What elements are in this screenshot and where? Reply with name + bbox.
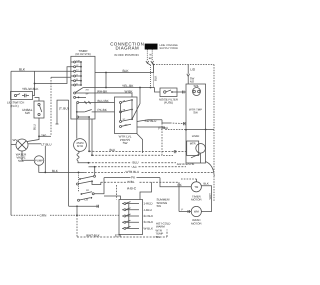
svg-text:BLK: BLK	[110, 148, 117, 152]
right pin chevron connector	[151, 61, 154, 63]
svg-text:SOL: SOL	[18, 159, 24, 163]
svg-text:ETB: ETB	[115, 233, 121, 237]
svg-text:SW: SW	[156, 235, 161, 239]
svg-text:HI: HI	[86, 189, 89, 192]
timer internal vertical	[76, 103, 78, 120]
door switch contact 2	[22, 95, 25, 97]
svg-text:MOTOR: MOTOR	[191, 221, 201, 225]
temp sw pin 4	[122, 221, 139, 223]
svg-text:W-BK: W-BK	[125, 89, 134, 93]
wire N junction dotted down	[153, 65, 155, 88]
svg-text:BLU-BK: BLU-BK	[98, 99, 110, 103]
svg-text:PK-BK: PK-BK	[98, 108, 108, 112]
timer pin row 6	[71, 84, 81, 86]
timer pin row 1	[71, 61, 81, 63]
wire curve panel to border	[206, 162, 215, 177]
svg-text:BLK: BLK	[154, 76, 158, 81]
wire into water valve	[27, 136, 39, 141]
wire PK to timer motor	[160, 178, 191, 187]
svg-text:MTR: MTR	[190, 143, 196, 146]
door switch box	[11, 92, 33, 100]
harness row BLU	[89, 162, 132, 164]
wash motor	[191, 206, 201, 216]
motor start box	[187, 141, 199, 156]
timer pin row 3	[71, 70, 81, 72]
bottom WHT-BLK wire	[77, 236, 167, 238]
contact elbow wires	[94, 178, 104, 194]
timer row 10 with contacts	[78, 102, 95, 104]
harness row W-BL	[101, 181, 127, 183]
left pin chevron connector	[146, 61, 149, 63]
timer motor	[191, 182, 201, 192]
svg-text:PK: PK	[131, 175, 136, 179]
timer pin row 4	[71, 75, 81, 77]
svg-text:WH-BK: WH-BK	[97, 89, 108, 93]
node on N-timer wire	[105, 72, 107, 74]
timer box	[71, 56, 95, 119]
svg-text:3x BLK: 3x BLK	[144, 220, 154, 224]
svg-text:(T, BU): (T, BU)	[59, 106, 69, 110]
motor junction wires	[88, 117, 90, 151]
wire wash motor left	[179, 211, 191, 213]
connector ticks on motor row	[173, 150, 175, 153]
label BLK on pump wire	[52, 169, 59, 173]
svg-text:1-RED: 1-RED	[144, 202, 154, 206]
unbalance switch box	[34, 101, 44, 118]
supply cord label	[160, 44, 179, 50]
wire door-sw tee to timer row2	[35, 67, 71, 84]
timer pin labels	[76, 59, 80, 85]
svg-text:(FUSE): (FUSE)	[164, 101, 173, 105]
bottom border dashed wire	[11, 214, 39, 216]
dashed wire row2	[92, 154, 162, 156]
svg-text:SW: SW	[123, 141, 128, 145]
long wire down left of motor	[68, 100, 70, 206]
svg-text:GRN: GRN	[40, 213, 47, 217]
drive motor	[74, 139, 87, 152]
svg-text:PUMP: PUMP	[35, 159, 43, 163]
svg-text:BLK: BLK	[123, 69, 130, 73]
supply cord black box	[145, 44, 158, 50]
wire SW BLU to panel	[162, 120, 170, 123]
svg-text:W-BLK: W-BLK	[144, 226, 153, 230]
timer pin row 5	[71, 80, 81, 82]
wire pressure box drop diagonal	[137, 133, 143, 153]
svg-text:BLK: BLK	[19, 68, 26, 72]
wire border to water valve	[11, 144, 16, 146]
wires out right of pressure sw	[137, 120, 162, 122]
wire water valve to pump	[22, 151, 34, 160]
wire inside panel to border	[186, 129, 214, 131]
svg-text:MOTOR: MOTOR	[191, 198, 201, 202]
left border vertical wire	[10, 71, 12, 215]
wire water valve LT BLU	[28, 143, 41, 145]
svg-text:WTB BLU: WTB BLU	[126, 170, 140, 174]
lid switch drop	[187, 65, 189, 74]
right border dashed down	[213, 65, 215, 173]
temp sw labels	[144, 202, 154, 231]
start switch contacts row c	[86, 189, 89, 192]
svg-text:YEL-BK: YEL-BK	[122, 84, 134, 88]
pin labels	[149, 53, 153, 60]
wire motor top	[76, 119, 78, 139]
motor internal switch row a	[79, 178, 81, 180]
pressure sw contact 3	[120, 121, 122, 123]
pump motor	[34, 156, 44, 166]
fuse box	[160, 88, 177, 97]
pressure switch box	[115, 97, 138, 134]
svg-text:(60 HZ STD): (60 HZ STD)	[75, 53, 90, 56]
svg-text:BLK: BLK	[52, 169, 59, 173]
node N junction	[153, 64, 155, 66]
svg-text:SW: SW	[25, 111, 30, 115]
wires into temp box	[104, 196, 120, 200]
wire timer row8 to pressure sw	[95, 93, 132, 97]
wire stub timer row4	[51, 76, 71, 78]
wire unbal down BLU	[38, 118, 40, 136]
wire N to timer BLK	[95, 65, 154, 73]
harness row WTB	[85, 171, 125, 173]
svg-text:A-B-C: A-B-C	[127, 186, 137, 190]
wire vertical x106	[105, 73, 107, 88]
wire rows elbow	[92, 181, 101, 184]
supply left pin wire down (dotted)	[150, 65, 152, 88]
timer internal bus	[80, 62, 82, 85]
svg-text:(N.O.): (N.O.)	[11, 104, 19, 108]
pressure sw contact 1	[120, 102, 122, 104]
left border top wire	[11, 70, 71, 72]
temp sw pin 5	[122, 227, 139, 229]
svg-text:LOAD: LOAD	[192, 134, 200, 138]
svg-text:LO: LO	[85, 198, 88, 201]
wire T BLU to panel	[165, 127, 186, 130]
wire PK-BK	[95, 111, 115, 113]
wire elbow T-BU	[57, 100, 69, 124]
harness row PK	[104, 177, 131, 179]
temp switch box	[119, 200, 143, 235]
door switch contact 1	[14, 94, 16, 96]
right panel box	[186, 84, 206, 163]
svg-text:CM: CM	[76, 59, 80, 62]
dashed row into timer motor top	[181, 178, 197, 180]
svg-text:(T)BLU: (T)BLU	[158, 126, 168, 130]
wire timer to fuse YEL y87.5	[95, 87, 155, 89]
timer switch arm	[75, 88, 84, 93]
svg-text:WV: WV	[13, 138, 18, 142]
svg-text:IN OFF POSITION: IN OFF POSITION	[114, 53, 138, 57]
timer row 11 switch	[77, 111, 85, 113]
wire N bus to right border dashed	[154, 64, 215, 66]
svg-text:WHT: WHT	[208, 193, 212, 200]
timer row 9	[75, 96, 86, 98]
svg-text:J-BLU: J-BLU	[144, 208, 152, 212]
temp sw pin 3	[122, 215, 139, 217]
supply right pin	[151, 50, 153, 62]
wire BLU-BK to pressure sw	[95, 102, 115, 104]
timer row 7 out	[83, 87, 95, 89]
svg-text:WM: WM	[194, 211, 200, 214]
motor internal switch row b	[77, 183, 79, 185]
label A-B-C	[127, 186, 137, 190]
start circle	[196, 144, 206, 154]
dashed boundary right mid	[162, 123, 173, 155]
pressure sw contact 4	[120, 126, 122, 128]
svg-text:LT BLU: LT BLU	[41, 142, 51, 146]
svg-text:AC: AC	[133, 165, 138, 169]
supply left pin	[146, 50, 148, 62]
svg-text:SW BLU: SW BLU	[145, 119, 157, 123]
svg-text:W/BL: W/BL	[127, 180, 135, 184]
wire pump bottom drop	[39, 165, 85, 172]
wire panel bottom	[200, 153, 202, 163]
svg-text:DIAGRAM: DIAGRAM	[115, 46, 139, 51]
wire fuse to panel	[177, 91, 186, 93]
svg-text:2x BLK: 2x BLK	[144, 214, 154, 218]
timer pin row 2	[71, 66, 81, 68]
svg-text:TM: TM	[194, 186, 199, 189]
pressure sw contact 2	[120, 111, 122, 113]
svg-text:AGITATE/SPIN: AGITATE/SPIN	[177, 163, 195, 166]
temp sw pin 1	[122, 203, 139, 205]
svg-text:SW: SW	[157, 204, 162, 208]
svg-text:SW: SW	[193, 110, 198, 114]
wire drop through border	[76, 206, 78, 215]
svg-text:WHT-BLK: WHT-BLK	[86, 233, 101, 237]
svg-text:F: F	[182, 208, 184, 212]
svg-text:BLK: BLK	[204, 182, 209, 186]
temp sw pin 2	[122, 209, 139, 211]
svg-text:240: 240	[41, 133, 46, 137]
lid switch solenoid	[193, 84, 199, 88]
svg-text:AG: AG	[86, 89, 89, 92]
title CONNECTION DIAGRAM	[110, 42, 144, 57]
wire bottom elbow to temp area	[69, 205, 99, 207]
wire pressure sw diag to fuse line	[132, 88, 140, 120]
svg-text:MTR: MTR	[77, 144, 83, 148]
water valve solenoid	[16, 139, 28, 151]
svg-text:LID: LID	[190, 67, 196, 71]
wire 240 horizontal	[39, 135, 51, 137]
dashed drop to 240	[50, 77, 52, 136]
wire dotted drop to contacts	[78, 172, 80, 192]
dashed drop into temp box	[115, 185, 117, 200]
wire door sw vertical	[33, 71, 35, 95]
temp sw bus	[128, 204, 130, 229]
svg-text:BLU: BLU	[32, 124, 36, 130]
timer row 12	[78, 116, 89, 118]
timer row 8 out	[75, 92, 95, 94]
pressure sw internal bus	[120, 104, 122, 121]
start switch contacts row d	[78, 199, 80, 201]
wire timer motor loop	[201, 186, 211, 212]
dashed wire to panel row1	[89, 150, 186, 152]
svg-text:YEL/W-BLK: YEL/W-BLK	[22, 87, 39, 91]
winding bottom wire	[78, 161, 89, 163]
motor winding	[77, 151, 79, 161]
svg-text:SUPPLY CORD: SUPPLY CORD	[160, 47, 178, 50]
harness row AC dashed	[89, 166, 95, 168]
